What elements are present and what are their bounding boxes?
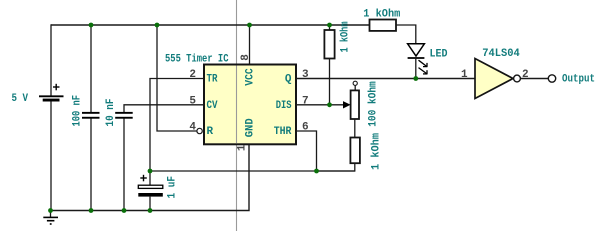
junction bottom rail at battery: [48, 208, 53, 213]
svg-text:10 nF: 10 nF: [105, 99, 117, 127]
svg-text:Q: Q: [285, 74, 292, 86]
inversion bubble R pin: [197, 128, 202, 133]
resistor R1 1kOhm vertical: [324, 25, 334, 105]
resistor R4 1kOhm lower: [317, 138, 360, 172]
svg-text:LED: LED: [430, 49, 448, 61]
potentiometer R3 100kOhm: [343, 81, 359, 137]
wire R2 to LED: [396, 25, 416, 44]
wire Q output line: [296, 78, 475, 80]
wire C2 top to CV: [124, 105, 204, 112]
capacitor C1 100nF: [82, 112, 100, 119]
junction timing node at C3: [148, 169, 153, 174]
svg-text:6: 6: [302, 122, 309, 134]
svg-text:100 nF: 100 nF: [72, 95, 84, 127]
svg-text:DIS: DIS: [276, 100, 292, 112]
capacitor C3 1uF polarized: [138, 175, 163, 197]
junction top rail at R1: [327, 23, 332, 28]
capacitor C2 10nF: [115, 112, 133, 119]
op-amp U1 555 timer IC body: [204, 65, 296, 145]
wire battery bottom: [50, 102, 52, 211]
svg-text:1: 1: [461, 69, 468, 81]
wire C2 bottom: [123, 119, 125, 212]
wire C3 bottom: [149, 197, 151, 211]
diode LED D1: [408, 44, 428, 74]
svg-text:THR: THR: [274, 126, 292, 138]
node Output terminal: [548, 75, 555, 82]
wire TR to timing node: [150, 79, 204, 172]
resistor R2 1kOhm horizontal: [370, 20, 397, 31]
inverter U2 74LS04: [475, 59, 520, 99]
svg-text:2: 2: [189, 69, 196, 81]
wire battery top: [50, 24, 52, 96]
junction top rail at VCC: [247, 23, 252, 28]
ground: [43, 211, 58, 225]
svg-text:TR: TR: [207, 74, 218, 86]
wire reset R from rail: [157, 24, 197, 131]
junction timing node at THR: [314, 169, 319, 174]
svg-text:5: 5: [189, 96, 196, 108]
sheet fold line: [236, 0, 238, 231]
svg-text:Output: Output: [562, 73, 595, 85]
wire timing node horizontal: [150, 170, 355, 172]
svg-text:1 kOhm: 1 kOhm: [370, 133, 382, 170]
svg-text:1: 1: [237, 144, 249, 151]
wire top rail VCC: [51, 24, 370, 26]
junction DIS at R1: [327, 102, 332, 107]
svg-text:R: R: [207, 126, 214, 138]
junction top rail at reset: [155, 23, 160, 28]
svg-text:4: 4: [189, 122, 196, 134]
junction top rail at C1: [89, 23, 94, 28]
svg-text:GND: GND: [244, 118, 256, 137]
svg-text:7: 7: [302, 96, 309, 108]
junction bottom rail at C1: [89, 208, 94, 213]
battery BT1 5V: [39, 84, 64, 102]
junction Q at LED: [413, 76, 418, 81]
svg-text:5 V: 5 V: [12, 93, 29, 105]
wire VCC pin 8: [249, 24, 251, 64]
wire LED cathode: [415, 58, 417, 79]
junction bottom rail at C3: [148, 208, 153, 213]
svg-text:555 Timer IC: 555 Timer IC: [165, 53, 229, 65]
svg-text:74LS04: 74LS04: [482, 48, 520, 60]
svg-text:1 kOhm: 1 kOhm: [340, 21, 352, 52]
svg-text:8: 8: [240, 54, 252, 61]
svg-text:3: 3: [302, 69, 309, 81]
wire inverter output: [520, 78, 548, 80]
wire bottom rail GND: [50, 144, 249, 211]
junction bottom rail at C2: [122, 208, 127, 213]
svg-text:CV: CV: [207, 100, 218, 112]
wire C1 vertical: [90, 24, 92, 112]
svg-text:100 kOhm: 100 kOhm: [368, 81, 380, 127]
wire C3 top: [149, 171, 151, 185]
svg-text:1 uF: 1 uF: [166, 176, 178, 199]
wire THR line: [296, 131, 317, 171]
wire DIS line: [296, 104, 345, 106]
svg-text:1 kOhm: 1 kOhm: [363, 8, 400, 20]
svg-text:VCC: VCC: [244, 68, 256, 86]
